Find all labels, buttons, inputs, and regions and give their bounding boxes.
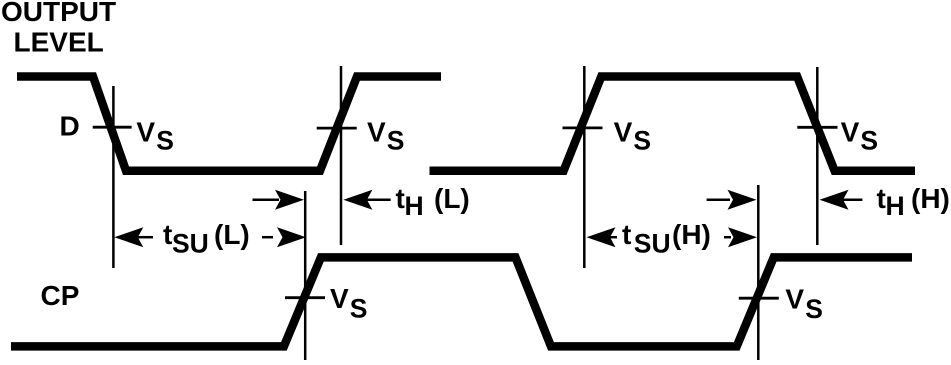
tSU(L) left arrow — [114, 227, 153, 247]
svg-text:D: D — [60, 110, 80, 141]
svg-text:V: V — [136, 117, 155, 148]
svg-text:H: H — [886, 191, 905, 221]
svg-text:SU: SU — [172, 229, 209, 259]
VS tick on D falling edge left — [93, 126, 132, 129]
VS tick on CP second rising edge — [739, 297, 779, 300]
svg-text:(H): (H) — [911, 183, 950, 214]
tSU(H) left arrow — [587, 227, 618, 247]
svg-text:(L): (L) — [214, 219, 250, 250]
svg-text:(L): (L) — [434, 183, 470, 214]
svg-text:S: S — [805, 294, 823, 324]
svg-text:V: V — [785, 284, 804, 315]
svg-text:LEVEL: LEVEL — [14, 26, 104, 57]
svg-text:S: S — [156, 126, 174, 156]
vertical line D at D rising crossing right — [583, 66, 586, 268]
svg-text:SU: SU — [634, 229, 671, 259]
vertical line E at CP second rising crossing — [757, 185, 760, 360]
VS tick on D falling edge right — [797, 126, 837, 129]
tH(L) arrow pointing left at line C — [343, 190, 390, 210]
hold-left outside arrow pointing right at line B — [253, 190, 305, 210]
VS tick on D rising edge left — [317, 127, 357, 130]
svg-text:S: S — [387, 126, 405, 156]
tSU(L) right arrow — [262, 227, 306, 247]
VS tick on D rising edge right — [563, 127, 603, 130]
svg-text:t: t — [622, 219, 631, 250]
vertical line B at CP first rising crossing — [304, 191, 307, 360]
svg-text:V: V — [367, 117, 386, 148]
tH(H) arrow pointing left at line F — [820, 190, 863, 210]
svg-text:t: t — [877, 183, 886, 214]
svg-text:V: V — [841, 117, 860, 148]
svg-text:S: S — [350, 294, 368, 324]
svg-text:S: S — [633, 126, 651, 156]
label OUTPUT LEVEL — [1, 0, 116, 57]
svg-text:S: S — [860, 126, 878, 156]
vertical line A at D falling crossing left — [112, 86, 115, 268]
svg-text:(H): (H) — [672, 219, 711, 250]
svg-text:CP: CP — [41, 280, 80, 311]
svg-text:t: t — [396, 183, 405, 214]
svg-text:V: V — [330, 283, 349, 314]
waveform CP — [11, 257, 912, 346]
vertical line F at D falling crossing right — [816, 67, 819, 245]
waveform D right (low-high-low) — [430, 77, 916, 171]
waveform D left (high-low-high) — [17, 77, 441, 171]
VS tick on CP first rising edge — [285, 296, 325, 299]
tSU(H) right arrow — [724, 227, 757, 247]
svg-text:OUTPUT: OUTPUT — [1, 0, 116, 27]
vertical line C at D rising crossing left — [340, 66, 343, 245]
svg-text:H: H — [405, 191, 424, 221]
svg-text:t: t — [163, 219, 172, 250]
hold-right outside arrow pointing right at line E — [707, 190, 757, 210]
svg-text:V: V — [614, 117, 633, 148]
